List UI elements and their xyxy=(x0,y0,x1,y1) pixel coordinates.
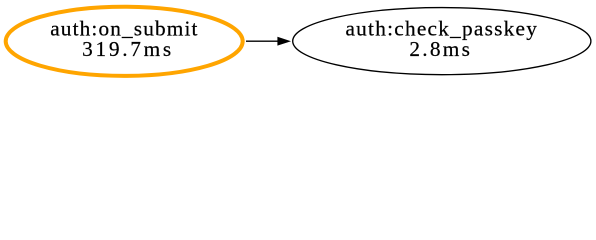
wire xyxy=(246,40,278,42)
node auth:on_submit (ellipse, orange, penwidth 3) xyxy=(6,7,243,76)
svg-text:319.7ms: 319.7ms xyxy=(82,37,174,61)
edge auth:on_submit -> auth:check_passkey xyxy=(246,37,291,46)
node auth:check_passkey (ellipse, black) xyxy=(293,8,591,75)
graph: two-node trace diagram xyxy=(0,0,596,82)
arrowhead xyxy=(277,37,291,46)
svg-text:2.8ms: 2.8ms xyxy=(409,37,472,61)
